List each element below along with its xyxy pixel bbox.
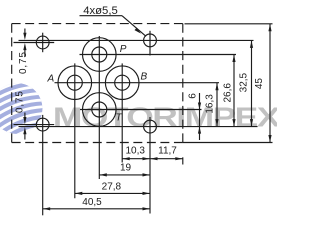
svg-text:4xø5,5: 4xø5,5 <box>83 5 118 17</box>
svg-text:6: 6 <box>188 93 199 99</box>
svg-text:11,7: 11,7 <box>158 146 177 157</box>
svg-text:16,3: 16,3 <box>205 94 216 114</box>
svg-text:T: T <box>116 112 123 123</box>
svg-text:P: P <box>120 44 127 55</box>
svg-text:40,5: 40,5 <box>82 197 102 208</box>
svg-text:19: 19 <box>120 162 132 173</box>
svg-text:26,6: 26,6 <box>222 83 233 103</box>
svg-text:MOTORIMPEX: MOTORIMPEX <box>53 101 277 132</box>
svg-text:27,8: 27,8 <box>102 181 122 192</box>
svg-text:32,5: 32,5 <box>239 72 250 92</box>
svg-text:10,3: 10,3 <box>125 146 145 157</box>
svg-text:A: A <box>47 74 55 85</box>
svg-text:B: B <box>141 72 148 83</box>
svg-text:0,75: 0,75 <box>14 90 25 113</box>
svg-text:0,75: 0,75 <box>18 51 29 74</box>
svg-text:45: 45 <box>254 78 265 90</box>
